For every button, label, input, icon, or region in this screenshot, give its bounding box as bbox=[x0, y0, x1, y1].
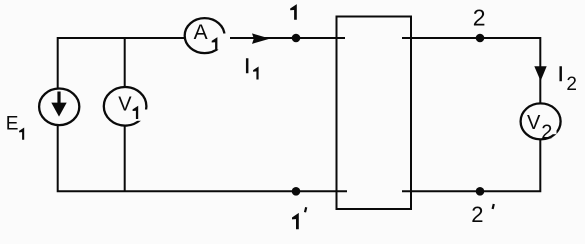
svg-text:V: V bbox=[118, 94, 132, 116]
current arrow I2 bbox=[534, 66, 546, 81]
svg-text:2: 2 bbox=[473, 5, 486, 31]
wire: right loop (box to node 2 to V2 branch to bottom) bbox=[402, 38, 540, 191]
wire: V1 branch vertical bbox=[124, 38, 126, 191]
node 2 bbox=[476, 34, 485, 43]
label node 1' bbox=[292, 207, 306, 229]
svg-text:V: V bbox=[527, 112, 541, 134]
svg-text:2: 2 bbox=[541, 122, 552, 144]
node 2' bbox=[476, 187, 485, 196]
node 1 bbox=[292, 34, 301, 43]
label E1 bbox=[6, 114, 24, 140]
label node 1 bbox=[290, 4, 297, 20]
voltmeter V2 bbox=[521, 103, 561, 143]
label I2 bbox=[558, 63, 577, 95]
current arrow I1 bbox=[252, 33, 270, 44]
voltmeter V1 bbox=[104, 87, 150, 126]
label node 2' bbox=[471, 202, 494, 227]
current source E1 bbox=[39, 89, 79, 126]
svg-text:I: I bbox=[558, 63, 564, 86]
svg-text:I: I bbox=[244, 55, 250, 78]
label I1 bbox=[244, 55, 258, 79]
ammeter A1 bbox=[185, 18, 230, 53]
svg-text:2: 2 bbox=[566, 74, 577, 95]
wire: left loop (top rail, left rail, bottom rail into box) bbox=[58, 38, 347, 191]
two-port network box bbox=[337, 17, 412, 210]
svg-text:2: 2 bbox=[471, 202, 483, 227]
svg-text:A: A bbox=[194, 21, 208, 44]
svg-text:E: E bbox=[6, 114, 19, 135]
node 1' bbox=[292, 187, 301, 196]
